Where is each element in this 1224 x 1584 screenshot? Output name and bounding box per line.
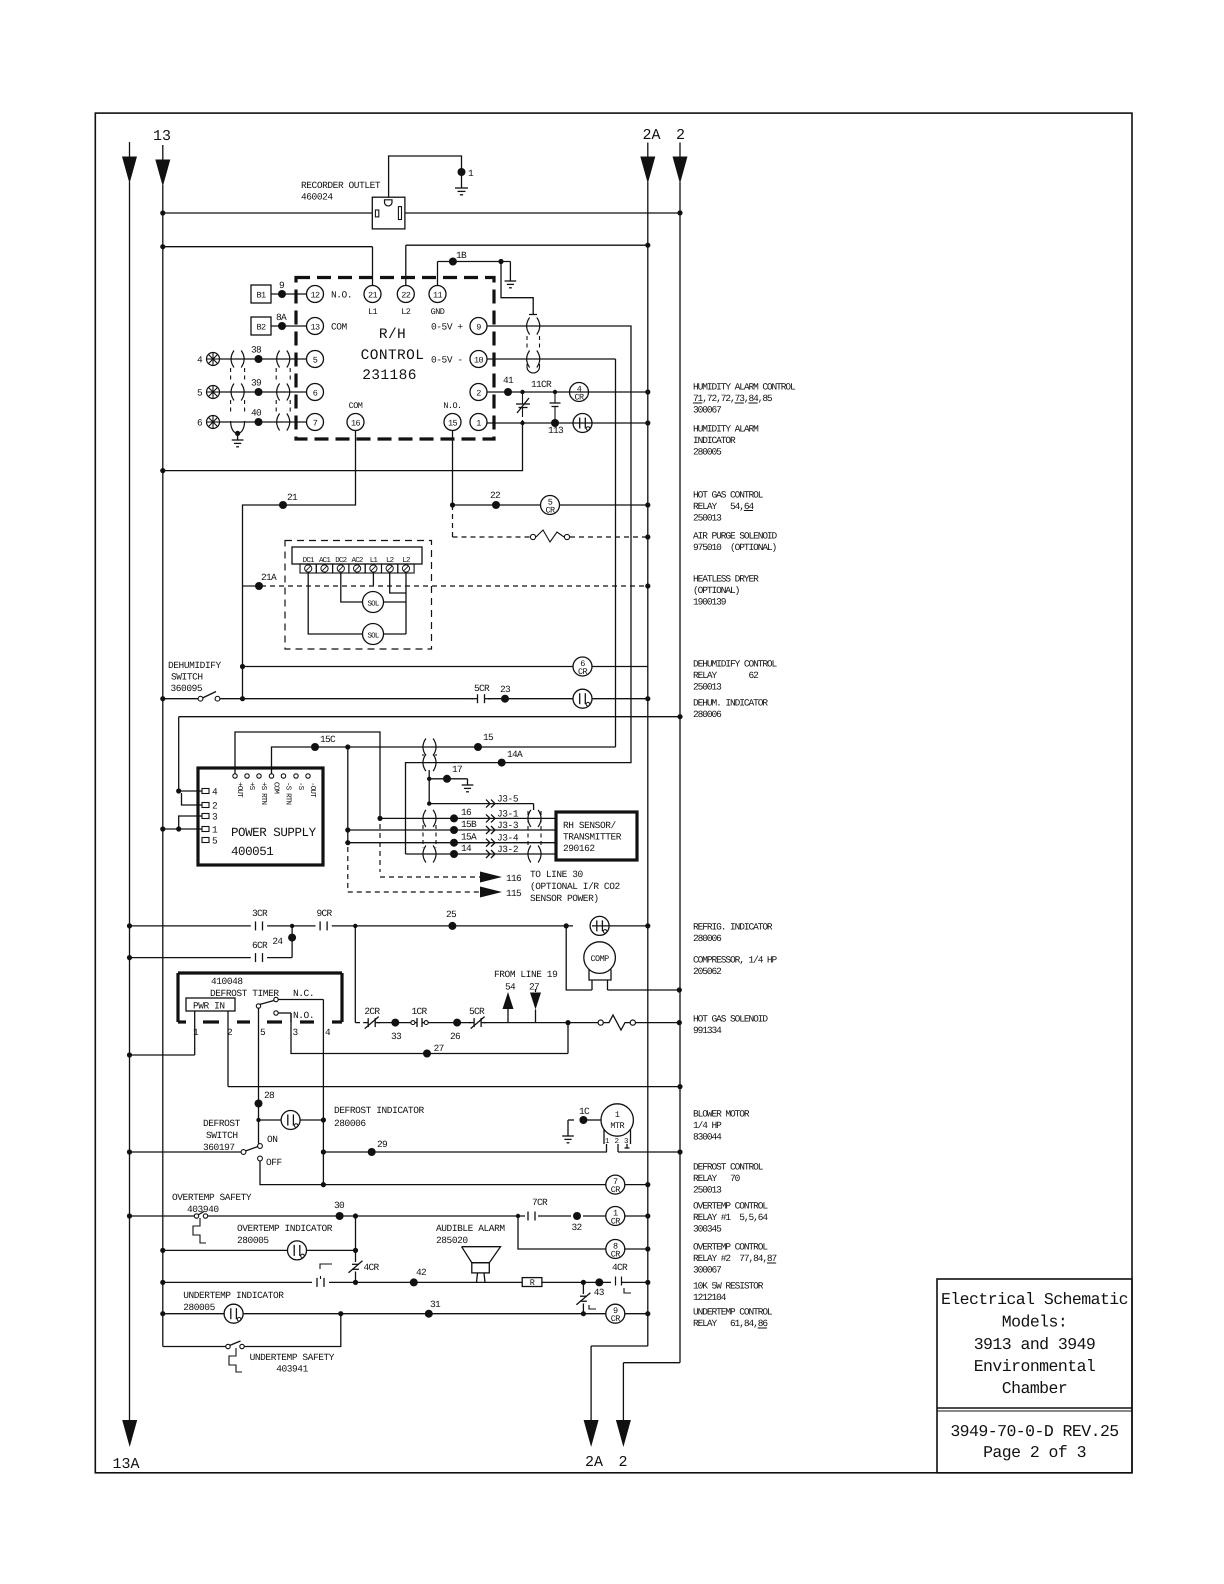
node 30 xyxy=(334,1200,345,1220)
svg-text:J3-4: J3-4 xyxy=(497,833,519,844)
page border frame xyxy=(95,113,1132,1473)
junction 3CR-6CR xyxy=(290,924,358,928)
svg-text:26: 26 xyxy=(450,1031,461,1042)
svg-text:CR: CR xyxy=(574,393,584,403)
svg-text:TO LINE 30: TO LINE 30 xyxy=(530,869,584,880)
svg-text:CR: CR xyxy=(578,667,588,677)
hot gas solenoid switch xyxy=(598,1015,635,1030)
wire shield drain to cable shield xyxy=(501,262,537,315)
svg-text:-S RTN: -S RTN xyxy=(284,782,293,805)
svg-text:AUDIBLE ALARM: AUDIBLE ALARM xyxy=(436,1223,505,1234)
wire pin15 down xyxy=(450,431,455,508)
svg-text:1: 1 xyxy=(615,1110,620,1120)
lamp refrig indicator xyxy=(590,916,609,935)
svg-text:GND: GND xyxy=(431,307,445,317)
junction 15C branch xyxy=(345,744,350,749)
svg-text:15: 15 xyxy=(483,732,494,743)
svg-text:3: 3 xyxy=(212,812,218,823)
svg-text:4: 4 xyxy=(212,787,218,798)
svg-text:10K 5W RESISTOR: 10K 5W RESISTOR xyxy=(693,1281,764,1292)
svg-text:2: 2 xyxy=(676,127,685,144)
wire pin1 row to row 470 xyxy=(160,423,522,473)
wire timer pin3 to row 27 xyxy=(291,1013,568,1058)
junction surge xyxy=(520,390,524,394)
svg-text:33: 33 xyxy=(391,1031,402,1042)
svg-text:RELAY #2 77,84,87: RELAY #2 77,84,87 xyxy=(693,1253,777,1264)
svg-text:15A: 15A xyxy=(461,832,477,843)
wire rail to PS pin4/2 xyxy=(176,717,202,805)
svg-text:43: 43 xyxy=(594,1287,605,1298)
wire lamp4 to pin 5 xyxy=(220,345,307,364)
svg-text:2A: 2A xyxy=(585,1454,603,1471)
wire undertemp row left xyxy=(160,1311,224,1316)
pin 21 L1 xyxy=(364,286,381,318)
svg-text:280006: 280006 xyxy=(693,709,722,720)
dashed line 115 xyxy=(348,847,522,899)
svg-text:39: 39 xyxy=(251,378,262,389)
svg-text:0-5V +: 0-5V + xyxy=(431,322,463,333)
svg-text:N.C.: N.C. xyxy=(293,988,314,999)
dashed line 116 xyxy=(380,824,522,884)
cable shield left pair xyxy=(231,351,245,447)
wire motor pin2 to rail 2 xyxy=(618,1149,683,1154)
wire L2 feeder xyxy=(406,243,651,286)
svg-text:7CR: 7CR xyxy=(532,1197,548,1208)
wire J3-1 row 16 xyxy=(380,807,556,822)
svg-text:17: 17 xyxy=(452,764,462,775)
arrow 54 up xyxy=(503,992,514,1023)
timer contact N.C. xyxy=(274,988,324,1022)
wire comp left leg xyxy=(566,926,592,990)
svg-text:CR: CR xyxy=(545,506,555,516)
contact 7CR xyxy=(528,1197,548,1221)
label 2A top xyxy=(643,127,661,144)
shield drain to 17 xyxy=(427,770,431,806)
svg-text:5: 5 xyxy=(260,1027,266,1038)
label 13 xyxy=(153,128,171,145)
coil 4CR humidity alarm control xyxy=(570,383,589,403)
svg-text:400051: 400051 xyxy=(231,845,273,859)
svg-text:280005: 280005 xyxy=(237,1235,269,1246)
blower motor 1 MTR xyxy=(601,1104,633,1152)
wire dehumidify row mid xyxy=(220,696,473,701)
label 410048 DEFROST TIMER xyxy=(210,976,279,999)
svg-text:7: 7 xyxy=(313,419,318,429)
wire dehum row to lamp xyxy=(488,698,573,700)
svg-text:SOL: SOL xyxy=(367,600,379,609)
cable shield for 0-5V pair xyxy=(527,318,540,374)
svg-text:J3-1: J3-1 xyxy=(497,808,519,819)
wire overtemp row xyxy=(340,1213,651,1218)
svg-text:4: 4 xyxy=(325,1027,331,1038)
svg-text:1B: 1B xyxy=(456,250,467,261)
compressor COMP xyxy=(584,942,616,990)
lamp dehum indicator xyxy=(573,689,592,708)
svg-text:SWITCH: SWITCH xyxy=(171,672,203,683)
svg-text:J3-3: J3-3 xyxy=(497,820,519,831)
wire 6CR bypass xyxy=(127,926,296,960)
label OVERTEMP INDICATOR xyxy=(237,1223,333,1246)
power supply 400051 box xyxy=(198,768,323,865)
node 15C xyxy=(311,734,336,751)
undertemp safety 403941 xyxy=(226,1341,244,1372)
svg-text:INDICATOR: INDICATOR xyxy=(693,435,736,446)
arrow 27 down xyxy=(530,989,541,1023)
chevron J3-4 xyxy=(486,833,519,847)
wire comp right leg xyxy=(608,987,682,992)
dehumidify switch 360095 xyxy=(198,692,220,702)
svg-text:5CR: 5CR xyxy=(469,1006,485,1017)
svg-text:OVERTEMP SAFETY: OVERTEMP SAFETY xyxy=(172,1192,252,1203)
svg-text:AC1: AC1 xyxy=(319,556,331,565)
node 113 xyxy=(548,419,564,436)
pin 10 0-5V- xyxy=(431,351,487,368)
svg-text:2CR: 2CR xyxy=(364,1006,380,1017)
wire pin9 to 14A row xyxy=(406,326,632,854)
svg-text:12: 12 xyxy=(310,291,320,301)
contact 1CR xyxy=(411,1006,428,1027)
svg-text:R/H: R/H xyxy=(379,327,406,343)
wire hot gas row left xyxy=(355,926,360,1023)
lamp defrost indicator xyxy=(281,1111,300,1130)
wire 8CR branch xyxy=(518,1216,650,1252)
capacitor 113 xyxy=(550,392,561,423)
svg-text:460024: 460024 xyxy=(301,192,333,203)
label OVERTEMP SAFETY xyxy=(172,1192,252,1215)
svg-text:14: 14 xyxy=(461,843,472,854)
svg-text:TRANSMITTER: TRANSMITTER xyxy=(563,832,622,843)
wire OFF branch xyxy=(260,1161,326,1187)
wire alarm row mid xyxy=(329,1267,522,1286)
label DEFROST SWITCH xyxy=(203,1118,241,1153)
svg-text:DC2: DC2 xyxy=(335,556,346,565)
net 13 rail (second left vertical) xyxy=(155,145,170,1347)
svg-text:Chamber: Chamber xyxy=(1002,1379,1067,1398)
wire DC2 to SOL upper xyxy=(341,573,363,602)
svg-text:DC1: DC1 xyxy=(303,556,315,565)
svg-text:HUMIDITY ALARM CONTROL: HUMIDITY ALARM CONTROL xyxy=(693,382,796,393)
svg-text:300067: 300067 xyxy=(693,405,721,416)
svg-text:3CR: 3CR xyxy=(252,908,268,919)
contact 5CR nc xyxy=(469,1006,486,1029)
svg-text:1C: 1C xyxy=(579,1106,590,1117)
svg-text:113: 113 xyxy=(548,425,564,436)
svg-text:Page 2 of 3: Page 2 of 3 xyxy=(983,1443,1086,1462)
shield arcs 15 row xyxy=(423,739,436,757)
svg-text:OFF: OFF xyxy=(266,1157,283,1168)
svg-text:3949-70-0-D REV.25: 3949-70-0-D REV.25 xyxy=(950,1422,1118,1441)
lamp overtemp indicator xyxy=(288,1241,307,1260)
R/H control 231186 (dashed module box) xyxy=(296,278,494,440)
label RECORDER OUTLET xyxy=(301,180,381,203)
annotation text column xyxy=(693,382,796,1330)
cable shield right pair xyxy=(276,351,290,431)
node 1C xyxy=(579,1106,590,1124)
junction comp branch xyxy=(564,923,569,928)
node 28 xyxy=(255,1090,275,1108)
svg-text:3913 and 3949: 3913 and 3949 xyxy=(974,1335,1096,1354)
wire COM to 15C row xyxy=(272,747,616,774)
svg-text:AIR PURGE SOLENOID: AIR PURGE SOLENOID xyxy=(693,531,778,542)
contact alarm no xyxy=(317,1276,324,1287)
wire 7CR row xyxy=(323,1182,650,1187)
node 33 xyxy=(391,1019,402,1042)
svg-text:N.O.: N.O. xyxy=(443,401,461,411)
node 41 xyxy=(503,375,514,396)
pin 12 N.O. xyxy=(307,286,353,303)
timer contact N.O. xyxy=(274,1010,314,1022)
node 26 xyxy=(428,1019,471,1042)
svg-text:250013: 250013 xyxy=(693,1185,722,1196)
svg-text:280005: 280005 xyxy=(693,447,722,458)
wire hot gas to rail 2 xyxy=(635,1020,682,1025)
svg-text:28: 28 xyxy=(264,1090,275,1101)
svg-text:280006: 280006 xyxy=(693,933,722,944)
svg-text:21: 21 xyxy=(368,291,378,301)
svg-text:285020: 285020 xyxy=(436,1235,468,1246)
label 2 top xyxy=(676,127,685,144)
label DEFROST INDICATOR xyxy=(334,1105,424,1129)
pin 16 COM xyxy=(347,401,364,431)
wire alarm to rail xyxy=(628,1280,650,1285)
svg-text:B2: B2 xyxy=(256,323,266,333)
coil 9CR undertemp control relay xyxy=(606,1304,625,1324)
wire L1 feeder xyxy=(160,244,372,285)
svg-text:COM: COM xyxy=(349,401,363,411)
svg-text:UNDERTEMP CONTROL: UNDERTEMP CONTROL xyxy=(693,1307,773,1318)
wire rail13 to PS pin1/3 xyxy=(160,816,202,832)
wire undertemp safety branch xyxy=(245,1314,341,1347)
svg-text:71,72,72,73,84,85: 71,72,72,73,84,85 xyxy=(693,393,773,404)
wire alarm row left xyxy=(160,1280,312,1285)
svg-text:POWER SUPPLY: POWER SUPPLY xyxy=(231,826,317,840)
svg-text:250013: 250013 xyxy=(693,682,722,693)
node 9 wire B1 to pin 12 xyxy=(271,280,307,298)
svg-text:41: 41 xyxy=(503,375,514,386)
wire DC1 to SOL lower xyxy=(308,573,362,634)
shield arcs 14A row xyxy=(423,754,436,771)
wire long row to rail 2 xyxy=(179,714,683,719)
node 14A xyxy=(498,749,523,767)
svg-text:+S: +S xyxy=(247,782,256,791)
svg-text:15B: 15B xyxy=(461,819,477,830)
svg-text:CR: CR xyxy=(611,1185,621,1195)
wire timer pin5 xyxy=(258,1008,260,1144)
svg-text:9CR: 9CR xyxy=(317,908,333,919)
svg-text:8A: 8A xyxy=(276,312,287,323)
coil 5CR hot gas control relay xyxy=(541,496,560,516)
chevron J3-2 xyxy=(486,844,519,858)
solenoid SOL lower xyxy=(363,624,384,645)
lamp 4 xyxy=(197,353,220,366)
svg-text:MTR: MTR xyxy=(610,1121,624,1131)
svg-text:9: 9 xyxy=(476,323,481,333)
wire pin1 row xyxy=(487,420,650,425)
coil 1CR overtemp control relay 1 xyxy=(606,1207,625,1227)
svg-text:DEFROST CONTROL: DEFROST CONTROL xyxy=(693,1162,764,1173)
contact 4CR no xyxy=(612,1262,631,1293)
solenoid SOL upper xyxy=(363,592,384,613)
svg-text:DEHUMIDIFY: DEHUMIDIFY xyxy=(168,660,222,671)
svg-text:2: 2 xyxy=(619,1454,628,1471)
label TO LINE 30 xyxy=(530,869,620,904)
svg-text:16: 16 xyxy=(461,807,472,818)
terminal strip xyxy=(292,547,422,573)
svg-text:J3-2: J3-2 xyxy=(497,844,519,855)
contact 3CR xyxy=(252,908,268,930)
svg-text:DEHUMIDIFY CONTROL: DEHUMIDIFY CONTROL xyxy=(693,659,778,670)
wire 6CR coil row xyxy=(240,664,648,669)
svg-text:DEFROST: DEFROST xyxy=(203,1118,241,1129)
svg-text:L2: L2 xyxy=(386,556,394,565)
chevron J3-5 xyxy=(486,794,519,808)
svg-text:6CR: 6CR xyxy=(252,940,268,951)
svg-text:116: 116 xyxy=(506,873,522,884)
svg-text:L1: L1 xyxy=(370,557,379,565)
wire undertemp row mid xyxy=(243,1299,605,1318)
wire 27 branch xyxy=(567,1023,569,1054)
svg-text:Models:: Models: xyxy=(1002,1313,1067,1332)
junction shield drain xyxy=(498,259,503,264)
svg-text:2: 2 xyxy=(476,389,481,399)
wire lamp5 to pin 6 xyxy=(220,378,307,397)
pin 13 COM xyxy=(307,318,348,335)
label 2A bottom xyxy=(585,1454,603,1471)
svg-text:23: 23 xyxy=(500,684,511,695)
svg-text:2A: 2A xyxy=(643,127,661,144)
svg-text:403940: 403940 xyxy=(187,1204,219,1215)
node 25 xyxy=(446,909,457,930)
contact 9CR xyxy=(317,908,333,930)
pin 5 xyxy=(307,351,324,368)
svg-text:RECORDER OUTLET: RECORDER OUTLET xyxy=(301,180,381,191)
wire recorder outlet to node 1 and ground xyxy=(389,156,462,197)
svg-text:31: 31 xyxy=(430,1299,441,1310)
svg-text:(OPTIONAL): (OPTIONAL) xyxy=(693,585,740,596)
label UNDERTEMP SAFETY xyxy=(250,1352,335,1375)
wire recorder row left xyxy=(160,210,372,215)
coil 8CR overtemp control relay 2 xyxy=(606,1240,625,1260)
wire refrig row xyxy=(127,923,651,928)
svg-text:15C: 15C xyxy=(320,734,336,745)
svg-text:BLOWER MOTOR: BLOWER MOTOR xyxy=(693,1109,750,1120)
svg-text:16: 16 xyxy=(351,419,361,429)
net 2 rail xyxy=(616,143,688,1448)
svg-text:Electrical Schematic: Electrical Schematic xyxy=(941,1290,1128,1309)
title block box xyxy=(937,1279,1132,1473)
surge suppressor xyxy=(516,392,530,414)
pin 11 GND xyxy=(429,286,446,318)
node 32 xyxy=(572,1212,583,1233)
svg-text:COM: COM xyxy=(331,322,348,333)
pin 7 xyxy=(307,414,324,431)
wire dehumidify row left xyxy=(160,696,198,701)
terminal B2 xyxy=(251,317,271,335)
svg-text:1212104: 1212104 xyxy=(693,1292,727,1303)
wire hot gas row mid xyxy=(484,1020,599,1025)
power supply left tabs 4 2 3 1 5 xyxy=(202,787,218,847)
contact 2CR nc xyxy=(363,1006,380,1029)
wire NC line down xyxy=(322,1022,324,1185)
wire overtemp lamp row xyxy=(160,1248,358,1253)
wire +OUT to J3-1 xyxy=(235,732,383,821)
wire 15C to J3-3/J3-4 xyxy=(345,747,350,845)
svg-text:1: 1 xyxy=(193,1027,199,1038)
svg-text:5: 5 xyxy=(313,356,318,366)
svg-text:115: 115 xyxy=(506,888,522,899)
svg-text:29: 29 xyxy=(377,1139,388,1150)
PWR IN box xyxy=(186,998,235,1012)
svg-text:PWR IN: PWR IN xyxy=(193,1001,225,1012)
svg-text:300345: 300345 xyxy=(693,1224,722,1235)
svg-text:UNDERTEMP SAFETY: UNDERTEMP SAFETY xyxy=(250,1352,335,1363)
svg-text:30: 30 xyxy=(334,1200,345,1211)
svg-text:RELAY #1 5,5,64: RELAY #1 5,5,64 xyxy=(693,1212,768,1223)
dashed air purge solenoid row xyxy=(453,505,651,542)
svg-text:5: 5 xyxy=(212,836,218,847)
svg-text:RH SENSOR/: RH SENSOR/ xyxy=(563,820,617,831)
wire timer pin1 xyxy=(127,1011,195,1058)
terminal B1 xyxy=(251,285,271,303)
wire 1C ground xyxy=(562,1120,601,1143)
svg-text:Environmental: Environmental xyxy=(974,1357,1096,1376)
svg-text:6: 6 xyxy=(197,418,203,429)
svg-text:HOT GAS SOLENOID: HOT GAS SOLENOID xyxy=(693,1014,768,1025)
node 1 xyxy=(455,168,474,195)
defrost switch 360197 xyxy=(241,1134,282,1168)
svg-text:15: 15 xyxy=(448,419,458,429)
wire pin2 row xyxy=(487,389,650,394)
svg-text:410048: 410048 xyxy=(211,976,243,987)
node 1B xyxy=(449,250,467,266)
svg-text:290162: 290162 xyxy=(563,843,595,854)
label 13A xyxy=(113,1456,140,1473)
node 15 xyxy=(474,732,494,751)
recorder outlet J1 (socket symbol) xyxy=(372,197,405,229)
resistor R xyxy=(522,1278,542,1288)
coil 6CR dehumidify control relay xyxy=(573,657,592,677)
svg-text:REFRIG. INDICATOR: REFRIG. INDICATOR xyxy=(693,922,773,933)
wire node 22 row xyxy=(453,490,651,509)
dashed link surge to pin1 row xyxy=(520,414,524,425)
label UNDERTEMP INDICATOR xyxy=(183,1290,284,1313)
svg-text:ON: ON xyxy=(267,1134,278,1145)
wire L2a jog xyxy=(390,573,406,593)
label 11CR xyxy=(531,379,552,390)
wire recorder row right xyxy=(405,210,683,215)
svg-text:231186: 231186 xyxy=(362,368,417,384)
svg-text:COMP: COMP xyxy=(590,954,609,964)
svg-text:HOT GAS CONTROL: HOT GAS CONTROL xyxy=(693,490,764,501)
svg-text:DEFROST INDICATOR: DEFROST INDICATOR xyxy=(334,1105,424,1116)
svg-text:11CR: 11CR xyxy=(531,379,552,390)
svg-text:360095: 360095 xyxy=(171,683,203,694)
svg-text:4: 4 xyxy=(197,355,203,366)
svg-text:1: 1 xyxy=(212,825,218,836)
lamp 5 xyxy=(197,386,220,399)
wire timer pin2 xyxy=(228,1011,683,1089)
pin 9 0-5V+ xyxy=(431,318,487,335)
svg-text:1CR: 1CR xyxy=(412,1006,428,1017)
svg-text:CR: CR xyxy=(611,1217,621,1227)
svg-text:L2: L2 xyxy=(402,556,410,565)
svg-text:13: 13 xyxy=(153,128,171,145)
lamp humidity alarm indicator xyxy=(573,414,592,433)
wire SOL lower right xyxy=(384,633,407,635)
wire rail to defrost switch xyxy=(127,1149,241,1154)
svg-text:DEHUM. INDICATOR: DEHUM. INDICATOR xyxy=(693,698,768,709)
junction cap xyxy=(553,390,557,394)
